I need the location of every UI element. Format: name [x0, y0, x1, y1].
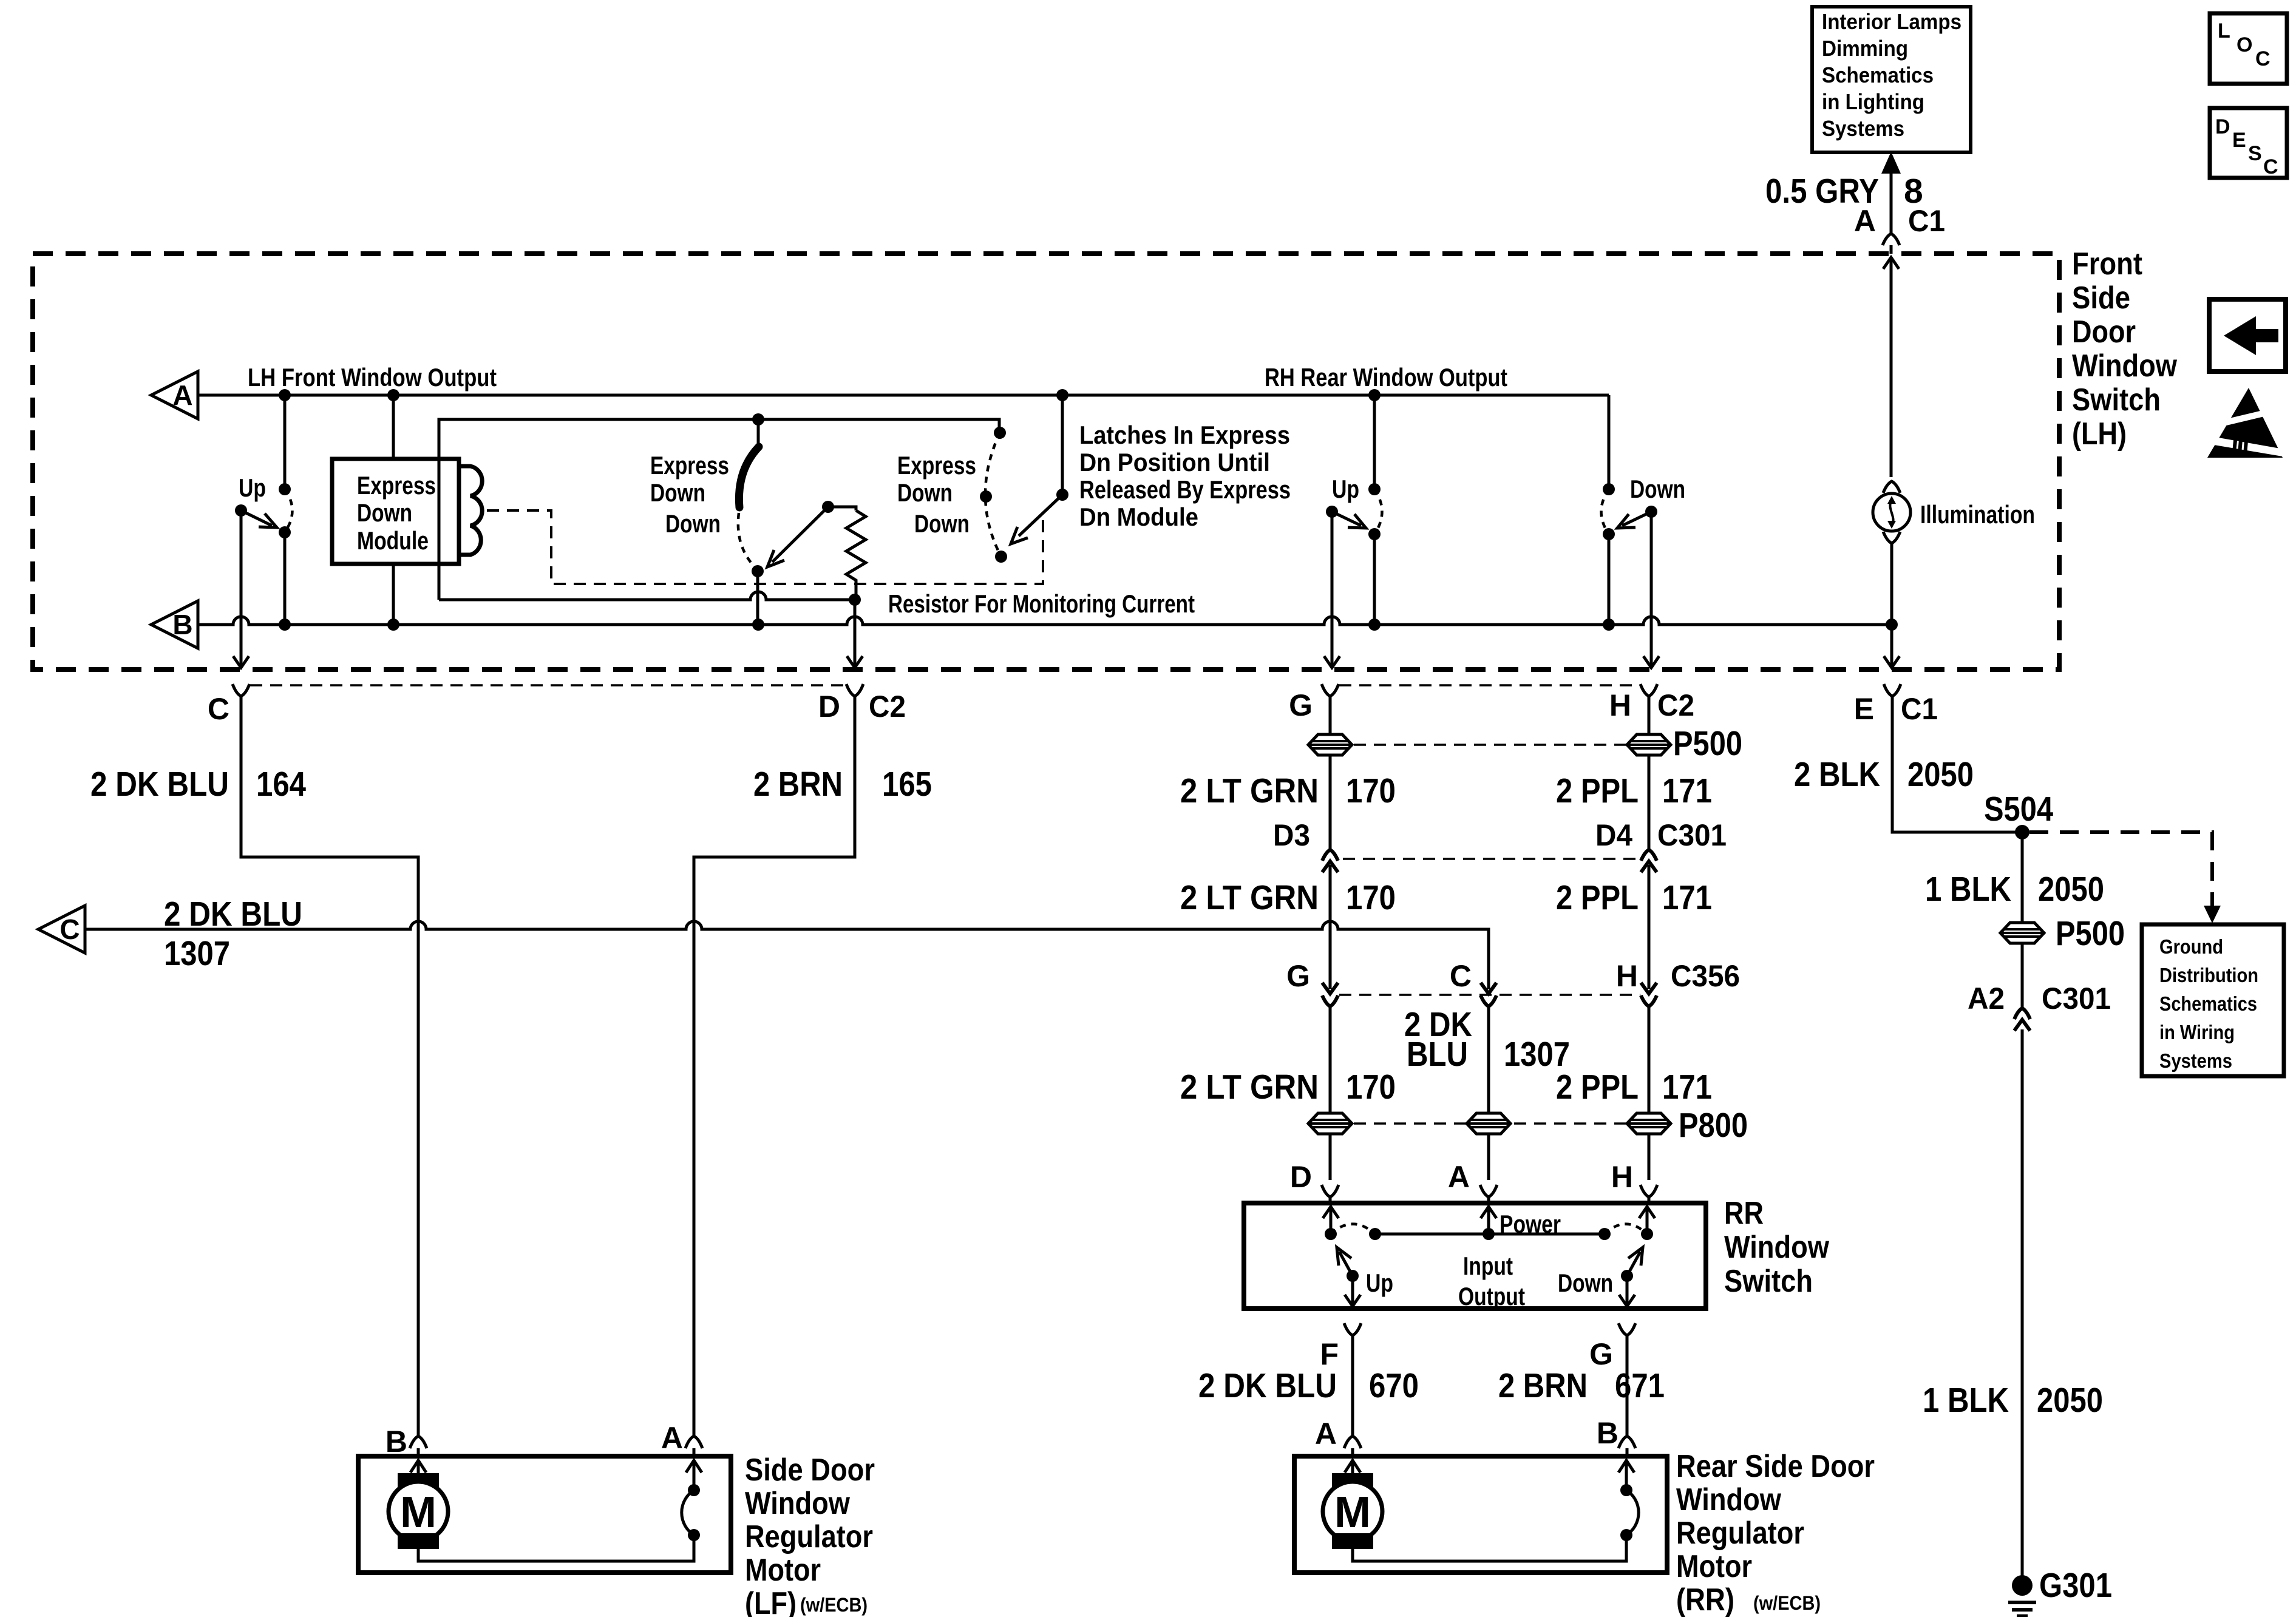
- svg-text:C: C: [2263, 155, 2278, 178]
- svg-text:Systems: Systems: [1822, 116, 1904, 141]
- svg-text:G: G: [1289, 688, 1313, 722]
- svg-text:2 DK BLU: 2 DK BLU: [164, 895, 302, 934]
- svg-text:Dn Position Until: Dn Position Until: [1079, 448, 1270, 476]
- svg-text:C356: C356: [1671, 959, 1740, 993]
- svg-text:2 PPL: 2 PPL: [1556, 771, 1639, 810]
- svg-text:RR: RR: [1724, 1196, 1764, 1231]
- svg-text:H: H: [1609, 688, 1631, 722]
- svg-text:Down: Down: [357, 498, 412, 527]
- svg-text:Up: Up: [239, 473, 266, 502]
- svg-text:2050: 2050: [2037, 1381, 2103, 1420]
- svg-text:Down: Down: [1558, 1269, 1613, 1297]
- svg-text:2 DK BLU: 2 DK BLU: [1198, 1366, 1337, 1405]
- svg-text:2050: 2050: [1907, 755, 1974, 794]
- svg-text:671: 671: [1615, 1366, 1665, 1405]
- svg-text:B: B: [385, 1425, 407, 1459]
- svg-text:Regulator: Regulator: [1676, 1516, 1804, 1551]
- svg-text:Side Door: Side Door: [745, 1453, 875, 1488]
- svg-text:(RR): (RR): [1676, 1582, 1734, 1617]
- svg-text:RH Rear Window Output: RH Rear Window Output: [1265, 363, 1507, 392]
- svg-text:(w/ECB): (w/ECB): [1753, 1592, 1821, 1614]
- svg-text:2 LT GRN: 2 LT GRN: [1180, 878, 1319, 917]
- svg-text:C: C: [2255, 47, 2271, 70]
- svg-text:Window: Window: [745, 1486, 850, 1521]
- svg-text:Side: Side: [2072, 280, 2130, 316]
- svg-text:H: H: [1611, 1160, 1633, 1194]
- svg-text:Output: Output: [1458, 1282, 1525, 1310]
- svg-text:Door: Door: [2072, 314, 2136, 350]
- svg-text:Power: Power: [1500, 1210, 1561, 1238]
- svg-text:Regulator: Regulator: [745, 1519, 873, 1554]
- svg-text:P500: P500: [2056, 914, 2125, 953]
- svg-text:C1: C1: [1908, 204, 1945, 238]
- svg-text:Dimming: Dimming: [1822, 36, 1908, 61]
- svg-text:A: A: [1448, 1160, 1470, 1194]
- svg-text:C: C: [208, 692, 229, 726]
- svg-text:Down: Down: [914, 509, 970, 538]
- svg-text:Down: Down: [1630, 475, 1685, 503]
- svg-text:Schematics: Schematics: [2159, 992, 2257, 1015]
- svg-text:Down: Down: [650, 478, 705, 507]
- svg-text:Front: Front: [2072, 246, 2142, 282]
- svg-text:D4: D4: [1595, 818, 1632, 852]
- svg-text:H: H: [1616, 959, 1638, 993]
- svg-text:Express: Express: [357, 471, 436, 500]
- svg-text:2 PPL: 2 PPL: [1556, 1068, 1639, 1107]
- svg-text:in Wiring: in Wiring: [2159, 1021, 2235, 1043]
- svg-text:Rear Side Door: Rear Side Door: [1676, 1449, 1875, 1484]
- svg-text:C1: C1: [1901, 692, 1938, 726]
- svg-text:Express: Express: [650, 451, 729, 480]
- svg-text:Distribution: Distribution: [2159, 964, 2258, 986]
- svg-text:(w/ECB): (w/ECB): [800, 1594, 868, 1616]
- svg-text:D: D: [1290, 1160, 1312, 1194]
- svg-text:Systems: Systems: [2159, 1049, 2232, 1072]
- svg-text:Switch: Switch: [1724, 1264, 1813, 1299]
- svg-text:A2: A2: [1968, 981, 2005, 1015]
- svg-text:C301: C301: [2042, 981, 2111, 1015]
- svg-text:170: 170: [1346, 1068, 1396, 1107]
- svg-text:1 BLK: 1 BLK: [1925, 870, 2011, 909]
- svg-text:M: M: [1334, 1488, 1371, 1537]
- svg-text:Window: Window: [1676, 1482, 1781, 1517]
- svg-text:171: 171: [1662, 878, 1712, 917]
- svg-text:1 BLK: 1 BLK: [1923, 1381, 2009, 1420]
- svg-text:G: G: [1286, 959, 1310, 993]
- svg-text:C2: C2: [1657, 688, 1694, 722]
- svg-text:2 LT GRN: 2 LT GRN: [1180, 771, 1319, 810]
- svg-text:S504: S504: [1984, 790, 2053, 829]
- svg-text:2 BLK: 2 BLK: [1794, 755, 1880, 794]
- svg-text:Motor: Motor: [745, 1553, 821, 1588]
- svg-text:170: 170: [1346, 771, 1396, 810]
- svg-text:Module: Module: [357, 526, 429, 555]
- svg-text:Down: Down: [897, 478, 953, 507]
- svg-text:in Lighting: in Lighting: [1822, 89, 1924, 114]
- svg-text:Illumination: Illumination: [1920, 500, 2035, 529]
- svg-text:B: B: [172, 609, 192, 640]
- svg-text:S: S: [2248, 142, 2262, 165]
- svg-text:C301: C301: [1657, 818, 1727, 852]
- svg-text:(LF): (LF): [745, 1586, 796, 1617]
- svg-text:O: O: [2237, 33, 2252, 56]
- svg-text:Ground: Ground: [2159, 935, 2223, 958]
- svg-text:Dn Module: Dn Module: [1079, 503, 1198, 531]
- svg-text:2 BRN: 2 BRN: [1498, 1366, 1588, 1405]
- svg-text:2 DK BLU: 2 DK BLU: [90, 765, 229, 804]
- svg-text:A: A: [661, 1421, 683, 1455]
- svg-text:Released By Express: Released By Express: [1079, 475, 1291, 504]
- svg-text:D: D: [2215, 115, 2230, 138]
- svg-text:Schematics: Schematics: [1822, 63, 1934, 87]
- svg-text:670: 670: [1369, 1366, 1419, 1405]
- svg-text:A: A: [1315, 1417, 1337, 1451]
- svg-text:D3: D3: [1273, 818, 1310, 852]
- svg-text:164: 164: [256, 765, 306, 804]
- svg-text:1307: 1307: [164, 934, 230, 973]
- svg-text:A: A: [1854, 204, 1876, 238]
- svg-text:M: M: [400, 1488, 436, 1537]
- svg-text:Up: Up: [1366, 1269, 1393, 1297]
- svg-text:D: D: [818, 690, 840, 724]
- svg-text:Window: Window: [2072, 348, 2177, 384]
- svg-text:G: G: [1589, 1337, 1613, 1371]
- svg-text:G301: G301: [2039, 1566, 2112, 1605]
- svg-text:Window: Window: [1724, 1230, 1829, 1265]
- svg-text:P800: P800: [1679, 1106, 1748, 1145]
- svg-text:171: 171: [1662, 1068, 1712, 1107]
- svg-text:2 PPL: 2 PPL: [1556, 878, 1639, 917]
- svg-text:A: A: [172, 379, 192, 411]
- svg-text:Express: Express: [897, 451, 976, 480]
- svg-text:LH Front Window Output: LH Front Window Output: [248, 363, 497, 392]
- svg-text:L: L: [2218, 19, 2230, 42]
- svg-text:165: 165: [882, 765, 932, 804]
- svg-text:E: E: [2232, 129, 2246, 152]
- svg-text:B: B: [1597, 1416, 1618, 1450]
- svg-text:P500: P500: [1673, 724, 1742, 763]
- svg-text:Resistor For Monitoring Curren: Resistor For Monitoring Current: [888, 589, 1195, 618]
- svg-text:Input: Input: [1463, 1252, 1513, 1280]
- svg-text:2 LT GRN: 2 LT GRN: [1180, 1068, 1319, 1107]
- svg-text:2050: 2050: [2038, 870, 2104, 909]
- svg-text:E: E: [1854, 692, 1874, 726]
- svg-text:2 BRN: 2 BRN: [753, 765, 843, 804]
- svg-text:171: 171: [1662, 771, 1712, 810]
- svg-text:(LH): (LH): [2072, 416, 2127, 452]
- svg-text:C: C: [1450, 959, 1472, 993]
- svg-text:170: 170: [1346, 878, 1396, 917]
- svg-text:Interior Lamps: Interior Lamps: [1822, 9, 1961, 34]
- svg-text:C2: C2: [869, 690, 906, 724]
- svg-text:BLU: BLU: [1407, 1035, 1468, 1074]
- svg-text:Motor: Motor: [1676, 1549, 1752, 1584]
- svg-text:Down: Down: [665, 509, 721, 538]
- svg-text:Switch: Switch: [2072, 382, 2161, 418]
- svg-text:Latches In Express: Latches In Express: [1079, 421, 1290, 449]
- svg-text:Up: Up: [1332, 475, 1359, 503]
- svg-text:C: C: [59, 914, 80, 945]
